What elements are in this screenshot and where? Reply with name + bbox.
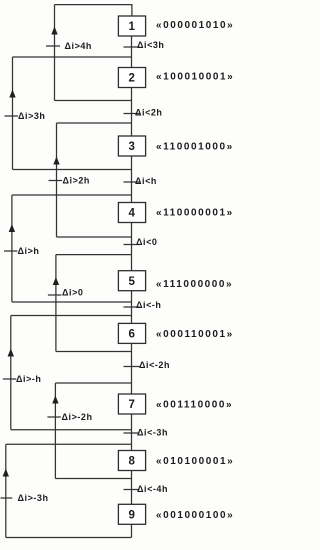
wire convergence rail above step 2 (13, 56, 132, 58)
wire convergence rail above step 8 (6, 443, 132, 445)
wire spine segment 6-7 (131, 343, 133, 394)
step box 4 (118, 203, 145, 223)
wire departure rail below step 7 (11, 429, 132, 431)
step box 1 (118, 16, 145, 36)
svg-text:Δi>-2h: Δi>-2h (62, 412, 93, 422)
svg-text:8: 8 (128, 456, 135, 468)
transition tick K1 on lane 1 (46, 45, 60, 47)
transition tick T5 (124, 306, 140, 308)
svg-text:Δi>2h: Δi>2h (63, 176, 90, 186)
svg-text:«000110001»: «000110001» (156, 329, 234, 340)
transition tick K6 on lane 6 (3, 378, 16, 380)
svg-text:Δi<-4h: Δi<-4h (137, 484, 168, 494)
transition tick K4 on lane 4 (4, 250, 17, 252)
arrow up lane 2 (9, 90, 15, 98)
svg-text:Δi>3h: Δi>3h (18, 111, 45, 121)
step box 2 (118, 68, 145, 88)
arrow up lane 3 (53, 157, 59, 165)
svg-text:«110000001»: «110000001» (156, 208, 234, 219)
transition tick T2 (124, 113, 140, 115)
step box 5 (118, 271, 145, 291)
wire branch return lane 2 (12, 57, 14, 170)
wire spine segment 2-3 (131, 88, 133, 137)
step box 8 (118, 451, 145, 471)
svg-text:«001110000»: «001110000» (156, 400, 233, 411)
wire branch return lane 6 (10, 316, 12, 430)
transition tick T1 (124, 46, 140, 48)
svg-text:«100010001»: «100010001» (156, 72, 234, 83)
arrow up lane 4 (9, 224, 15, 232)
step box 9 (118, 504, 145, 524)
wire spine segment 3-4 (131, 156, 133, 203)
wire convergence rail above step 6 (11, 315, 132, 317)
wire branch return lane 8 (5, 444, 7, 537)
wire branch return lane 3 (56, 123, 58, 237)
wire branch return lane 7 (54, 383, 56, 479)
svg-text:Δi<-2h: Δi<-2h (139, 360, 170, 370)
svg-text:Δi>0: Δi>0 (62, 288, 83, 298)
wire spine segment 7-8 (131, 414, 133, 451)
step box 6 (118, 323, 145, 343)
transition tick T4 (124, 244, 140, 246)
svg-text:7: 7 (128, 399, 134, 411)
svg-text:«111000000»: «111000000» (156, 279, 233, 290)
svg-text:5: 5 (128, 276, 135, 288)
wire spine segment 1-2 (131, 36, 133, 68)
transition tick K5 on lane 5 (48, 294, 62, 296)
wire branch return lane 1 (54, 5, 56, 101)
svg-text:9: 9 (128, 510, 134, 522)
svg-text:«010100001»: «010100001» (156, 456, 234, 467)
svg-text:2: 2 (128, 73, 134, 85)
wire spine segment 5-6 (131, 291, 133, 324)
svg-text:Δi<0: Δi<0 (136, 237, 157, 247)
wire departure rail below step 2 (55, 100, 132, 102)
wire departure rail below step 6 (56, 351, 132, 353)
wire spine segment 4-5 (131, 223, 133, 271)
wire convergence rail above step 4 (12, 194, 132, 196)
svg-text:Δi<-h: Δi<-h (136, 300, 161, 310)
arrow up lane 5 (53, 277, 59, 285)
arrow up lane 7 (52, 396, 58, 404)
transition tick K3 on lane 3 (49, 180, 63, 182)
arrow up lane 1 (51, 27, 57, 35)
transition tick T8 (124, 489, 140, 491)
wire convergence rail above step 3 (57, 122, 132, 124)
wire convergence rail above step 5 (56, 254, 132, 256)
svg-text:«000001010»: «000001010» (156, 20, 234, 31)
wire branch return lane 5 (55, 255, 57, 352)
svg-text:Δi>4h: Δi>4h (65, 41, 92, 51)
arrow up lane 6 (8, 349, 14, 357)
transition tick K8 on lane 8 (1, 497, 13, 499)
svg-text:Δi<-3h: Δi<-3h (137, 428, 168, 438)
wire departure rail below step 5 (12, 301, 132, 303)
step box 3 (118, 136, 145, 156)
svg-text:Δi>-3h: Δi>-3h (18, 493, 49, 503)
svg-text:Δi<h: Δi<h (135, 176, 157, 186)
wire spine segment 8-9 (131, 471, 133, 505)
wire departure rail below step 8 (55, 478, 131, 480)
transition tick T7 (124, 432, 140, 434)
wire convergence rail above step 7 (55, 382, 131, 384)
svg-text:3: 3 (128, 141, 134, 153)
svg-text:4: 4 (128, 208, 135, 220)
wire spine segment below 9 to bottom rail (131, 524, 133, 537)
transition tick T3 (124, 181, 140, 183)
wire branch return lane 4 (11, 195, 13, 302)
svg-text:Δi<2h: Δi<2h (135, 108, 162, 118)
svg-text:Δi>h: Δi>h (18, 246, 40, 256)
transition tick K7 on lane 7 (47, 416, 61, 418)
svg-text:Δi>-h: Δi>-h (16, 374, 41, 384)
transition tick T6 (124, 366, 140, 368)
svg-text:1: 1 (128, 21, 135, 33)
transition tick K2 on lane 2 (5, 115, 19, 117)
wire top loop into step 1 (55, 5, 132, 16)
svg-text:6: 6 (128, 329, 134, 341)
wire bottom rail below step 9 (6, 537, 132, 539)
svg-text:«001000100»: «001000100» (156, 510, 234, 521)
wire departure rail below step 4 (57, 236, 132, 238)
step box 7 (118, 394, 145, 414)
wire departure rail below step 3 (13, 169, 132, 171)
arrow up lane 8 (3, 469, 9, 477)
svg-text:Δi<3h: Δi<3h (137, 40, 164, 50)
svg-text:«110001000»: «110001000» (156, 142, 234, 153)
